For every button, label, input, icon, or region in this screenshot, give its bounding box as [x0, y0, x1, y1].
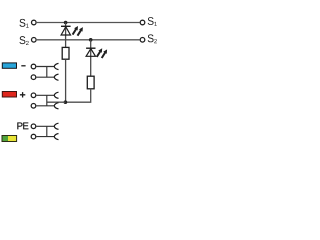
label S1 left [19, 19, 28, 28]
green-yellow marking rectangle green part [2, 136, 8, 142]
resistor R2 [87, 76, 94, 89]
LED D1 cathode bar [61, 25, 71, 27]
LED D2 emission arrow b [102, 53, 105, 58]
label S2 left [19, 36, 28, 45]
blue marking rectangle [2, 63, 16, 68]
clamp circle minus lower [31, 75, 36, 80]
fork contact plus lower [54, 103, 58, 109]
clamp circle plus lower [31, 104, 36, 109]
junction dot on S2 line [89, 38, 93, 42]
clamp circle PE lower [31, 134, 36, 139]
label S1 right [148, 17, 157, 26]
wire plus lower [37, 105, 55, 107]
label PE [17, 123, 28, 130]
terminal circle S2 left [32, 38, 37, 43]
wire branch 2 upper [90, 40, 92, 76]
LED D1 emission arrow a [73, 29, 76, 34]
LED D2 emission arrow a [97, 52, 100, 57]
clamp circle PE upper [31, 124, 36, 129]
fork contact PE upper [54, 123, 58, 129]
wire positive feed line [47, 101, 66, 103]
plus polarity marker [20, 92, 25, 97]
jumper bar minus pair [46, 67, 48, 78]
minus polarity marker [21, 65, 25, 67]
LED D1 emission arrow b [78, 30, 81, 35]
clamp circle plus upper [31, 93, 36, 98]
terminal circle S1 right [140, 20, 145, 25]
resistor R1 [62, 47, 69, 59]
green-yellow marking rectangle yellow part [8, 136, 17, 142]
wire PE lower [37, 136, 55, 138]
fork contact minus upper [54, 63, 58, 69]
wire minus upper [37, 66, 55, 68]
fork contact plus upper [54, 92, 58, 98]
fork contact PE lower [54, 134, 58, 140]
jumper bar plus pair [46, 95, 48, 106]
jumper bar PE pair [46, 126, 48, 136]
green-yellow marking rectangle border [2, 136, 17, 142]
label S2 right [148, 34, 157, 43]
LED D2 cathode bar [86, 47, 95, 49]
wire minus lower [37, 76, 55, 78]
terminal circle S1 left [32, 20, 37, 25]
wire PE upper [37, 125, 55, 127]
LED D2 triangle [86, 49, 95, 57]
wire plus upper [37, 94, 55, 96]
wire branch 1 upper [65, 23, 67, 48]
junction dot bottom [64, 100, 68, 104]
junction dot on S1 line [64, 21, 68, 25]
wire branch 2 lower with corner [65, 89, 90, 102]
wire S1 line [37, 22, 140, 24]
fork contact minus lower [54, 74, 58, 80]
clamp circle minus upper [31, 64, 36, 69]
LED D1 triangle [61, 27, 70, 35]
wire branch 1 lower [65, 59, 67, 102]
red marking rectangle [2, 92, 16, 98]
terminal circle S2 right [140, 38, 145, 43]
wire S2 line [37, 39, 140, 41]
